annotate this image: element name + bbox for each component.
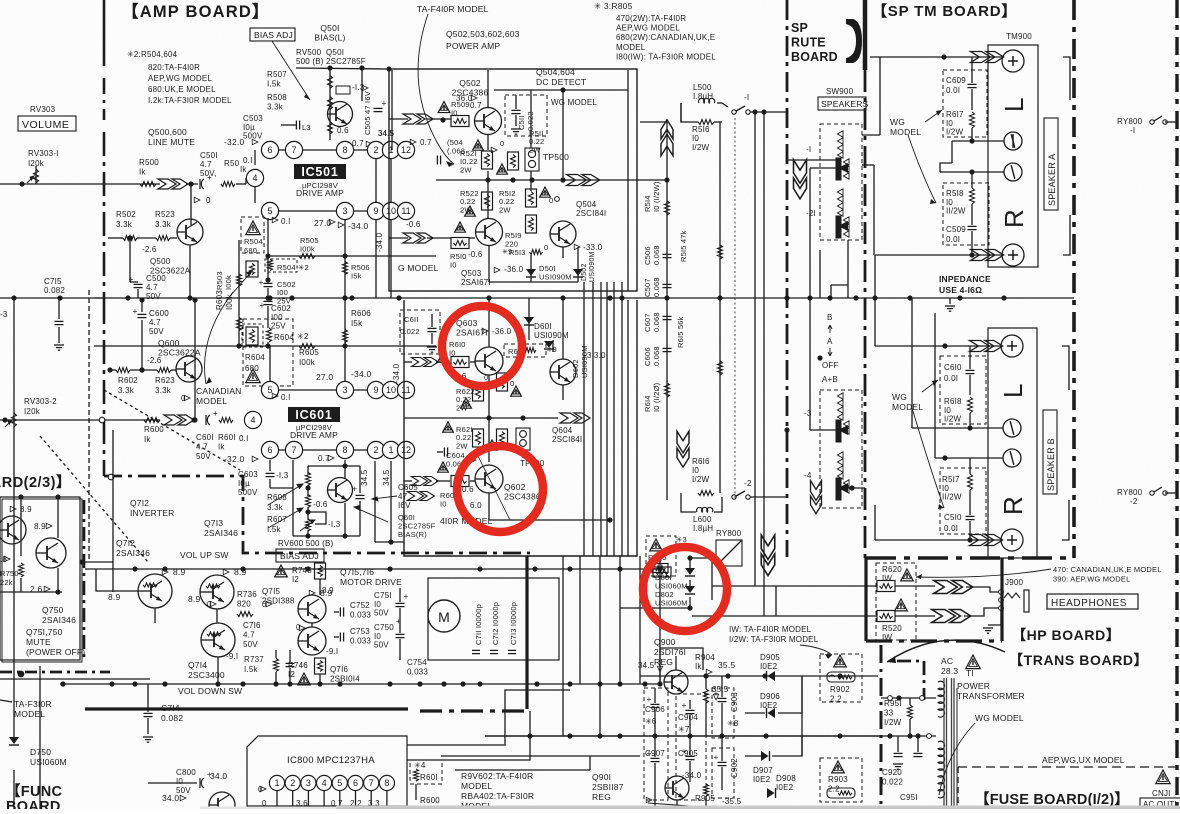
pin 10 IC601 bbox=[382, 381, 399, 398]
svg-text:0.033: 0.033 bbox=[350, 611, 371, 620]
svg-text:+: + bbox=[647, 749, 652, 758]
svg-text:R606: R606 bbox=[351, 309, 371, 318]
svg-text:2SC3400: 2SC3400 bbox=[188, 670, 225, 680]
pin 5 IC501 bbox=[261, 202, 278, 219]
wire d801 top bbox=[620, 574, 653, 576]
wire bias top y466 bbox=[308, 465, 360, 467]
transistor Q602 bbox=[475, 465, 503, 493]
pin 4 IC601 bbox=[244, 411, 261, 428]
wire trans top bbox=[881, 697, 936, 699]
board boundary AMP BOARD left lower bbox=[103, 300, 106, 476]
svg-text:4.7: 4.7 bbox=[149, 318, 161, 327]
transistor Q502 bbox=[475, 108, 502, 135]
arrow double down x768 bbox=[761, 535, 775, 576]
svg-text:LINE MUTE: LINE MUTE bbox=[148, 137, 195, 147]
svg-text:R745: R745 bbox=[292, 566, 312, 575]
svg-text:Q7I5: Q7I5 bbox=[262, 587, 280, 596]
svg-text:0.082: 0.082 bbox=[161, 713, 183, 723]
svg-text:+: + bbox=[404, 592, 409, 601]
svg-text:5: 5 bbox=[337, 778, 342, 788]
wire horizontal links to reg bbox=[660, 648, 703, 684]
pin 11 IC501 bbox=[397, 202, 414, 219]
board boundary right dash-dot bbox=[1072, 0, 1076, 558]
wire bundle verticals lower block bbox=[583, 282, 585, 556]
svg-text:I2: I2 bbox=[288, 670, 295, 679]
svg-text:BIAS(L): BIAS(L) bbox=[314, 33, 345, 43]
svg-text:Q900: Q900 bbox=[654, 637, 676, 647]
svg-text:【HP BOARD】: 【HP BOARD】 bbox=[1012, 627, 1120, 643]
board boundary FUNC BOARD inner dash bbox=[88, 290, 90, 560]
svg-text:R604: R604 bbox=[274, 333, 294, 342]
svg-text:L: L bbox=[998, 383, 1028, 398]
svg-text:C7I2 I0000р: C7I2 I0000р bbox=[491, 602, 500, 645]
wire mid bus R bbox=[404, 417, 558, 419]
potentiometer RV303-2 bbox=[12, 413, 17, 427]
wire regulator top y676 bbox=[640, 675, 878, 677]
svg-text:7: 7 bbox=[369, 778, 374, 788]
svg-text:C902: C902 bbox=[730, 758, 739, 778]
svg-text:820:TA-F4I0R: 820:TA-F4I0R bbox=[148, 63, 200, 72]
svg-text:DRIVE AMP: DRIVE AMP bbox=[296, 188, 344, 198]
terminal A plus bottom bbox=[1002, 244, 1024, 266]
svg-text:【FUSE BOARD(I/2)】: 【FUSE BOARD(I/2)】 bbox=[975, 791, 1129, 808]
svg-text:BIAS ADJ: BIAS ADJ bbox=[280, 551, 319, 561]
callout BIAS R diagonal bbox=[354, 506, 388, 523]
wire Q502 emitter bbox=[487, 135, 489, 150]
svg-text:R620: R620 bbox=[882, 565, 902, 574]
wire HP feed bottom bbox=[692, 615, 877, 617]
wire drop x580 bbox=[579, 556, 581, 684]
motor box bbox=[428, 578, 559, 660]
svg-text:I2: I2 bbox=[292, 575, 299, 584]
svg-text:4: 4 bbox=[252, 173, 257, 183]
svg-text:MODEL: MODEL bbox=[196, 396, 227, 406]
pin 1 IC501 bbox=[382, 141, 399, 158]
curved arrow trans bbox=[887, 640, 1005, 662]
svg-text:2SAI67I: 2SAI67I bbox=[461, 278, 491, 287]
svg-text:0.0I: 0.0I bbox=[944, 524, 958, 533]
IC601 pin row bottom bbox=[270, 449, 406, 451]
svg-text:28.3: 28.3 bbox=[941, 666, 958, 676]
svg-text:0: 0 bbox=[544, 243, 548, 252]
wires terminal B bbox=[875, 345, 1001, 347]
svg-text:I0 (I/2W): I0 (I/2W) bbox=[652, 181, 661, 212]
pin 2 IC800 bbox=[285, 775, 300, 790]
wire R503 column upper bbox=[238, 240, 240, 298]
highlight circle Q602 bbox=[457, 446, 543, 532]
svg-text:✳2: ✳2 bbox=[297, 332, 309, 341]
IC601 label box bbox=[288, 407, 340, 422]
fuse board dashed boundary bbox=[958, 766, 1180, 768]
warning T1 bbox=[966, 655, 980, 669]
svg-text:SW900: SW900 bbox=[826, 87, 854, 96]
IC501 label box bbox=[294, 164, 346, 179]
resistor R508 lower zig bbox=[328, 122, 333, 134]
svg-text:-34.0: -34.0 bbox=[351, 369, 371, 379]
svg-text:SPEAKER A: SPEAKER A bbox=[1047, 154, 1057, 206]
pin 7 IC501 bbox=[285, 141, 302, 158]
svg-text:R904: R904 bbox=[695, 653, 715, 662]
svg-text:POWER: POWER bbox=[957, 681, 990, 691]
svg-text:R60I: R60I bbox=[218, 433, 236, 442]
svg-text:Q604: Q604 bbox=[552, 426, 573, 435]
svg-text:C602: C602 bbox=[271, 304, 291, 313]
pin 11 IC601 bbox=[397, 381, 414, 398]
svg-text:2SC4386: 2SC4386 bbox=[504, 492, 541, 502]
svg-text:8: 8 bbox=[342, 445, 347, 455]
svg-text:Q502: Q502 bbox=[459, 78, 481, 88]
svg-text:I0: I0 bbox=[944, 406, 951, 415]
transistor Q751 bbox=[0, 516, 26, 544]
DC detect inner box top bbox=[494, 89, 628, 91]
svg-text:-2: -2 bbox=[744, 479, 752, 488]
svg-text:I5k: I5k bbox=[351, 319, 363, 328]
svg-text:II/2W: II/2W bbox=[942, 493, 962, 502]
svg-text:0: 0 bbox=[484, 373, 488, 382]
warning R745 bbox=[275, 565, 288, 577]
svg-text:6: 6 bbox=[353, 778, 358, 788]
svg-text:680:UK,E MODEL: 680:UK,E MODEL bbox=[148, 85, 216, 94]
wires switch group 1 bbox=[787, 159, 836, 161]
svg-text:R6I7: R6I7 bbox=[946, 110, 964, 119]
svg-text:R520: R520 bbox=[882, 624, 902, 633]
wire x720 top link bbox=[719, 121, 721, 123]
svg-text:I0: I0 bbox=[451, 109, 458, 118]
svg-text:R608: R608 bbox=[267, 493, 287, 502]
svg-text:Q750: Q750 bbox=[42, 605, 64, 615]
wire reg left entry bbox=[622, 675, 640, 677]
svg-text:BOARD(2/3)】: BOARD(2/3)】 bbox=[0, 474, 71, 491]
svg-text:IC501: IC501 bbox=[301, 165, 338, 179]
svg-text:I80(IW): TA-F3I0R MODEL: I80(IW): TA-F3I0R MODEL bbox=[616, 52, 716, 61]
svg-text:Q7I4: Q7I4 bbox=[188, 660, 207, 670]
svg-text:IC601: IC601 bbox=[295, 408, 332, 422]
svg-text:I00k: I00k bbox=[300, 245, 315, 254]
pin 8 IC601 bbox=[336, 441, 353, 458]
svg-text:C920: C920 bbox=[882, 768, 902, 777]
arrow feed L bbox=[158, 179, 188, 189]
board boundary SP TM left bbox=[863, 0, 868, 70]
svg-text:-I: -I bbox=[1130, 126, 1135, 135]
terminal strip A outline bbox=[988, 45, 1038, 267]
svg-text:C95I: C95I bbox=[900, 793, 918, 802]
ground C715 bbox=[54, 344, 64, 346]
arrow right sp route low bbox=[811, 481, 822, 514]
svg-text:2SBI0I4: 2SBI0I4 bbox=[330, 675, 360, 684]
svg-text:BOARD: BOARD bbox=[791, 50, 838, 64]
transistor Q504 bbox=[550, 221, 576, 247]
svg-text:R5I3: R5I3 bbox=[509, 248, 526, 257]
svg-text:Q75I,750: Q75I,750 bbox=[26, 627, 63, 637]
svg-text:D60I: D60I bbox=[534, 322, 552, 331]
svg-text:5: 5 bbox=[267, 385, 272, 395]
svg-text:TI: TI bbox=[966, 668, 974, 678]
transistor volsw1 bbox=[138, 574, 172, 608]
pin 6 IC800 bbox=[348, 775, 363, 790]
svg-text:C609: C609 bbox=[946, 76, 966, 85]
board boundary far right dash-dot bbox=[1175, 0, 1178, 809]
svg-text:POWER AMP: POWER AMP bbox=[446, 41, 500, 51]
svg-text:✳4: ✳4 bbox=[414, 761, 426, 770]
pin 4 IC800 bbox=[317, 775, 332, 790]
bracket speaker B bbox=[1062, 346, 1069, 390]
svg-text:8.9: 8.9 bbox=[108, 592, 120, 602]
svg-text:820: 820 bbox=[237, 600, 251, 609]
svg-text:USI090M: USI090M bbox=[580, 345, 589, 378]
svg-text:I/2W: I/2W bbox=[884, 718, 901, 727]
svg-text:0: 0 bbox=[549, 196, 553, 205]
svg-text:R: R bbox=[998, 496, 1028, 515]
svg-text:Q504,604: Q504,604 bbox=[536, 67, 575, 77]
svg-text:IW: IW bbox=[882, 633, 892, 642]
dashed box R604 outer bbox=[243, 319, 293, 386]
svg-text:R9V602:TA-F4I0R: R9V602:TA-F4I0R bbox=[461, 771, 533, 781]
label SPEAKER B bbox=[1043, 410, 1057, 494]
svg-text:.8: .8 bbox=[0, 555, 7, 564]
wire func vertical bbox=[39, 666, 41, 809]
svg-text:R5I8: R5I8 bbox=[946, 189, 964, 198]
svg-text:+: + bbox=[682, 701, 687, 710]
wire HP link x776 bbox=[775, 586, 777, 616]
svg-text:C904: C904 bbox=[678, 713, 698, 722]
dashed box R902 bbox=[820, 654, 862, 702]
svg-text:8.9: 8.9 bbox=[34, 522, 46, 531]
arrow down sp route bbox=[794, 160, 807, 199]
svg-text:-35.5: -35.5 bbox=[722, 797, 742, 806]
svg-text:SPEAKERS: SPEAKERS bbox=[821, 99, 869, 109]
svg-text:9: 9 bbox=[373, 206, 378, 216]
svg-text:I.5k: I.5k bbox=[267, 80, 281, 89]
svg-text:+: + bbox=[714, 689, 719, 698]
transistor Q600 bbox=[176, 356, 202, 382]
annotation circle small bbox=[555, 197, 560, 202]
pin 3 IC501 bbox=[336, 202, 353, 219]
svg-text:L: L bbox=[999, 97, 1029, 112]
resistor R510 10 bbox=[451, 238, 469, 249]
pin 8 IC501 bbox=[336, 141, 353, 158]
svg-text:USI090M: USI090M bbox=[539, 273, 572, 282]
board boundary FUNC BOARD edge bbox=[83, 500, 86, 658]
wire pins 9 10 drop bbox=[375, 219, 377, 298]
pin 1 IC800 bbox=[269, 775, 284, 790]
wire drop x660 bbox=[659, 556, 661, 684]
svg-text:Q7I2: Q7I2 bbox=[130, 498, 149, 508]
dashed box C610 R618 bbox=[940, 356, 986, 424]
svg-text:8.9: 8.9 bbox=[322, 586, 334, 595]
wire input R to R600 bbox=[0, 419, 160, 421]
wire Q501 bias network top bbox=[296, 68, 389, 69]
resistor R520 1W bbox=[877, 611, 895, 622]
svg-text:Ik: Ik bbox=[218, 443, 225, 452]
svg-text:Q504: Q504 bbox=[576, 200, 597, 209]
dashed box R504 *2 bbox=[265, 259, 297, 272]
wire Q504 collector bbox=[562, 90, 564, 180]
ground near bus bbox=[945, 305, 955, 307]
pin 7 IC800 bbox=[364, 775, 379, 790]
svg-text:-2.6: -2.6 bbox=[142, 245, 157, 254]
svg-text:MODEL: MODEL bbox=[890, 127, 921, 137]
svg-text:25V: 25V bbox=[271, 322, 286, 331]
svg-text:R5I6: R5I6 bbox=[692, 125, 710, 134]
svg-text:-I.3: -I.3 bbox=[276, 471, 289, 480]
dashed box R517 C510 bbox=[940, 468, 986, 534]
svg-text:-4: -4 bbox=[804, 471, 812, 480]
svg-text:MUTE: MUTE bbox=[26, 637, 51, 647]
wire d802 bottom bbox=[620, 607, 690, 609]
svg-text:4: 4 bbox=[250, 415, 255, 425]
wire bus links top bbox=[666, 99, 668, 101]
svg-text:CNJI: CNJI bbox=[1152, 789, 1171, 798]
svg-text:0.0I: 0.0I bbox=[946, 86, 960, 95]
svg-text:C603: C603 bbox=[238, 470, 258, 479]
svg-text:+: + bbox=[260, 301, 265, 310]
svg-text:R600: R600 bbox=[144, 425, 164, 434]
svg-text:8.9: 8.9 bbox=[188, 594, 200, 604]
svg-text:I0: I0 bbox=[692, 466, 699, 475]
wire mute net bbox=[20, 497, 22, 556]
svg-text:L3: L3 bbox=[302, 123, 311, 132]
svg-text:R602: R602 bbox=[118, 376, 138, 385]
svg-text:I20k: I20k bbox=[24, 407, 41, 416]
arrow HP top bbox=[934, 581, 973, 594]
svg-text:✳ 3:R805: ✳ 3:R805 bbox=[594, 1, 633, 11]
svg-text:0: 0 bbox=[510, 379, 514, 388]
svg-text:D905: D905 bbox=[760, 653, 780, 662]
svg-text:(POWER OFF): (POWER OFF) bbox=[26, 647, 85, 657]
svg-text:C6I0: C6I0 bbox=[944, 363, 962, 372]
svg-text:RY800: RY800 bbox=[716, 529, 742, 538]
svg-text:IC800 MPC1237HA: IC800 MPC1237HA bbox=[287, 755, 375, 766]
transformer core bars bbox=[943, 678, 945, 809]
svg-text:C50I: C50I bbox=[200, 151, 218, 160]
wire R608 column bbox=[307, 466, 309, 474]
pin 12 IC601 bbox=[397, 441, 414, 458]
wire drop x563 bbox=[562, 556, 564, 684]
svg-text:C605: C605 bbox=[398, 483, 418, 492]
svg-text:L600: L600 bbox=[693, 515, 712, 524]
wire vertical x720 bbox=[719, 122, 721, 298]
pin 3 IC601 bbox=[336, 381, 353, 398]
svg-text:C606: C606 bbox=[643, 347, 652, 366]
svg-text:R600: R600 bbox=[420, 796, 440, 805]
board boundary HP BOARD outline bbox=[864, 558, 867, 641]
svg-text:6: 6 bbox=[267, 445, 272, 455]
svg-text:USI090M: USI090M bbox=[589, 251, 596, 282]
resistor R750 zig bbox=[19, 563, 24, 577]
svg-text:50V: 50V bbox=[374, 609, 389, 618]
svg-text:R5I4: R5I4 bbox=[643, 195, 652, 212]
svg-text:2W: 2W bbox=[499, 205, 511, 214]
svg-text:34.0: 34.0 bbox=[162, 793, 179, 803]
inductor L600 bbox=[697, 507, 713, 512]
svg-text:INVERTER: INVERTER bbox=[130, 508, 174, 518]
svg-text:35.5: 35.5 bbox=[718, 660, 735, 670]
wire right of mute box bbox=[82, 561, 113, 563]
wire vertical x195 Q600 bbox=[194, 300, 196, 420]
svg-text:I.5k: I.5k bbox=[267, 525, 281, 534]
wire L500 loop bbox=[681, 103, 698, 122]
svg-text:+: + bbox=[207, 173, 212, 182]
svg-text:I0E2: I0E2 bbox=[753, 775, 771, 784]
IC501 pin row top bbox=[254, 150, 256, 165]
svg-text:0.068: 0.068 bbox=[652, 245, 661, 265]
svg-text:Q600: Q600 bbox=[158, 338, 180, 348]
svg-text:AEP,WG,UX MODEL: AEP,WG,UX MODEL bbox=[1042, 755, 1125, 765]
svg-text:2SAI346: 2SAI346 bbox=[116, 548, 150, 558]
wire top output to sp bbox=[610, 162, 645, 164]
trimmer RV600 bbox=[306, 519, 311, 531]
wire from relay down bbox=[728, 566, 730, 610]
dashed box C609 R617 bbox=[943, 70, 987, 137]
switch block 2 dashed box bbox=[820, 390, 862, 508]
svg-text:MODEL: MODEL bbox=[616, 43, 646, 52]
svg-text:AC: AC bbox=[941, 656, 953, 666]
svg-text:I/2W: I/2W bbox=[944, 415, 961, 424]
svg-text:C750: C750 bbox=[374, 623, 394, 632]
label SPEAKER A bbox=[1044, 118, 1058, 210]
transistor volsw2 bbox=[200, 575, 234, 609]
svg-text:4.7: 4.7 bbox=[243, 631, 255, 640]
wire IC501 pin2 pin1 drops bbox=[375, 159, 377, 203]
wire input L to R500 bbox=[0, 183, 160, 185]
svg-text:8.9: 8.9 bbox=[234, 567, 246, 577]
thick segments bottom bbox=[84, 695, 86, 709]
dashed warn R805 bbox=[646, 536, 676, 576]
arrow HP bottom bbox=[932, 610, 971, 623]
svg-text:C5I0: C5I0 bbox=[944, 513, 962, 522]
svg-text:USI060M: USI060M bbox=[30, 757, 67, 767]
svg-text:C7I5: C7I5 bbox=[44, 277, 62, 286]
svg-text:R6I4: R6I4 bbox=[643, 395, 652, 412]
node open circle boundary bbox=[108, 474, 114, 480]
svg-text:RV500: RV500 bbox=[296, 48, 322, 57]
wire switch to right bbox=[750, 111, 787, 113]
wire terminal B minus2 bbox=[935, 457, 1003, 459]
resistor small mid R511 bbox=[508, 152, 519, 170]
svg-text:2: 2 bbox=[290, 778, 295, 788]
svg-text:10: 10 bbox=[386, 385, 396, 395]
resistor R609 10 bbox=[451, 476, 469, 487]
svg-text:I0: I0 bbox=[440, 500, 447, 509]
svg-text:RV600 500 (B): RV600 500 (B) bbox=[278, 539, 334, 548]
svg-text:TA-F4I0R MODEL: TA-F4I0R MODEL bbox=[417, 4, 489, 14]
svg-text:R746: R746 bbox=[288, 661, 308, 670]
svg-text:OFF: OFF bbox=[822, 361, 839, 370]
trimmer RV500 bbox=[336, 86, 350, 94]
wire y256 R505 bbox=[268, 255, 436, 257]
svg-text:REG: REG bbox=[592, 792, 611, 802]
IC501 pin row bottom bbox=[270, 210, 406, 212]
svg-text:C752: C752 bbox=[350, 601, 370, 610]
potentiometer RV303-1 bbox=[35, 166, 37, 184]
svg-text:DRIVE AMP: DRIVE AMP bbox=[290, 430, 338, 440]
bracket speaker A bbox=[1063, 57, 1070, 100]
svg-text:C7II I0000р: C7II I0000р bbox=[474, 604, 483, 645]
svg-text:I0: I0 bbox=[946, 198, 953, 207]
svg-text:50V: 50V bbox=[196, 452, 211, 461]
svg-text:50V: 50V bbox=[146, 292, 161, 301]
svg-text:I00: I00 bbox=[271, 313, 283, 322]
svg-text:I/2W: I/2W bbox=[946, 128, 963, 137]
terminal B minus2 bbox=[1003, 449, 1021, 467]
svg-text:Q7I3: Q7I3 bbox=[204, 518, 223, 528]
svg-text:8.9: 8.9 bbox=[20, 505, 32, 514]
wire VOL UP bus bbox=[85, 568, 660, 570]
svg-text:Q7I5,7I6: Q7I5,7I6 bbox=[340, 567, 374, 577]
svg-text:I.8µH: I.8µH bbox=[693, 524, 713, 533]
svg-text:R507: R507 bbox=[267, 70, 287, 79]
svg-text:R508: R508 bbox=[267, 93, 287, 102]
